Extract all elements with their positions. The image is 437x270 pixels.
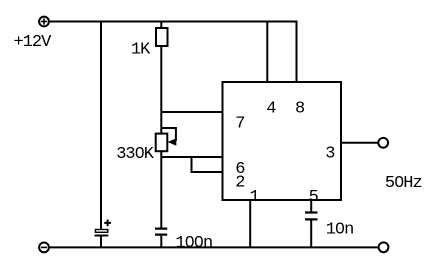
svg-text:7: 7 <box>235 115 244 134</box>
svg-text:100n: 100n <box>175 234 212 253</box>
svg-text:2: 2 <box>235 173 244 192</box>
svg-text:5: 5 <box>309 188 319 207</box>
svg-text:8: 8 <box>295 100 305 119</box>
svg-text:1K: 1K <box>131 40 151 59</box>
svg-text:330K: 330K <box>116 145 155 164</box>
svg-text:+12V: +12V <box>14 33 53 52</box>
svg-text:4: 4 <box>266 100 276 119</box>
svg-text:3: 3 <box>325 145 335 164</box>
svg-text:50Hz: 50Hz <box>385 174 422 193</box>
svg-text:10n: 10n <box>326 220 354 239</box>
svg-text:1: 1 <box>250 188 260 207</box>
